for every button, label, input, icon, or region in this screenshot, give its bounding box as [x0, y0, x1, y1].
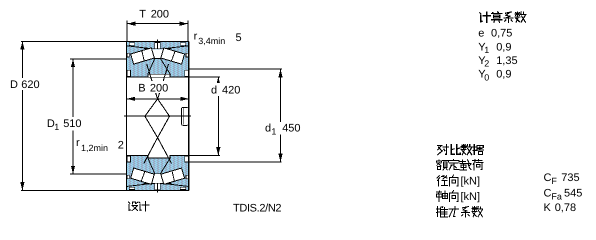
- centerline: [124, 115, 191, 117]
- svg-text:0,78: 0,78: [555, 202, 576, 214]
- dimension d1 450: [189, 68, 282, 70]
- svg-text:510: 510: [63, 118, 81, 130]
- dimension T 200 (total width), extension lines + arrows: [126, 21, 128, 41]
- outer ring split tick, bottom: [157, 183, 159, 192]
- svg-text:450: 450: [282, 123, 300, 135]
- svg-text:F: F: [551, 176, 557, 186]
- svg-text:0: 0: [484, 72, 489, 82]
- tapered roller right: [161, 168, 185, 184]
- bearing right side face: [188, 42, 190, 191]
- svg-text:1: 1: [271, 126, 276, 136]
- svg-text:r: r: [194, 30, 198, 42]
- contact line from top-left roller: [147, 64, 158, 99]
- CJK: axial: [437, 191, 459, 202]
- svg-text:1: 1: [54, 122, 59, 132]
- svg-text:545: 545: [564, 188, 582, 200]
- svg-text:1: 1: [484, 45, 489, 55]
- svg-text:0,9: 0,9: [496, 69, 511, 81]
- inner ring centre rib: [148, 158, 170, 174]
- svg-text:C: C: [544, 172, 552, 184]
- svg-text:d: d: [265, 123, 271, 135]
- svg-text:e: e: [478, 28, 484, 40]
- CJK: rated loads: [437, 160, 483, 171]
- svg-text:Fa: Fa: [551, 192, 562, 202]
- svg-text:TDIS.2/N2: TDIS.2/N2: [233, 203, 281, 215]
- contact line to bottom-right roller: [158, 138, 172, 164]
- svg-text:r: r: [76, 137, 80, 149]
- svg-text:0,9: 0,9: [496, 41, 511, 53]
- CJK: thrust factor: [436, 206, 482, 216]
- svg-text:3,4min: 3,4min: [198, 36, 225, 46]
- svg-text:[kN]: [kN]: [461, 191, 481, 203]
- svg-text:200: 200: [150, 83, 168, 95]
- top half: raceways, rollers, centre rib: [127, 46, 149, 49]
- svg-text:B: B: [138, 83, 145, 95]
- contact line to bottom-left roller: [144, 138, 158, 164]
- CJK: she ji (design): [129, 202, 149, 211]
- bearing rings bottom half (section, hatched blue): [127, 155, 189, 190]
- contact line from top-right roller: [158, 64, 169, 99]
- chamfer notches top half: [129, 43, 134, 45]
- svg-text:d: d: [211, 84, 217, 96]
- bearing left side face: [126, 42, 128, 191]
- outer ring split tick, top: [157, 40, 159, 49]
- svg-text:1,35: 1,35: [496, 55, 517, 67]
- inner ring centre rib: [148, 59, 170, 75]
- tapered roller left: [131, 168, 155, 184]
- locating slot N2: [181, 107, 188, 125]
- pressure-line diamond: [145, 99, 170, 138]
- svg-text:2: 2: [118, 140, 124, 152]
- chamfer notches bottom half: [129, 187, 134, 189]
- svg-text:D: D: [10, 79, 18, 91]
- svg-text:0,75: 0,75: [491, 28, 512, 40]
- svg-text:[kN]: [kN]: [461, 176, 481, 188]
- svg-text:K: K: [544, 202, 552, 214]
- bottom half: raceways, rollers, centre rib: [127, 184, 149, 187]
- CJK: radial: [437, 175, 458, 186]
- dimension d 420 (bore diameter): [189, 76, 220, 78]
- svg-text:200: 200: [151, 9, 169, 21]
- svg-text:5: 5: [236, 32, 242, 44]
- svg-text:C: C: [544, 188, 552, 200]
- tapered roller right: [161, 48, 185, 64]
- dimension D 620 (outer diameter): [21, 40, 127, 42]
- svg-text:T: T: [139, 9, 146, 21]
- dimension D1 510 (shoulder diameter): [70, 58, 126, 60]
- tapered roller left: [131, 48, 155, 64]
- CJK bold title: comparison data: [438, 145, 484, 155]
- svg-text:420: 420: [222, 84, 240, 96]
- svg-text:2: 2: [484, 59, 489, 69]
- svg-text:735: 735: [561, 172, 579, 184]
- bearing outer/inner rings top half (section, hatched blue): [127, 42, 189, 77]
- svg-text:620: 620: [21, 79, 39, 91]
- dimension B 200 (inner ring width): [127, 98, 189, 100]
- CJK bold title: calculation factors: [480, 12, 526, 23]
- svg-text:1,2min: 1,2min: [81, 143, 108, 153]
- locating slot inner wall: [183, 108, 185, 124]
